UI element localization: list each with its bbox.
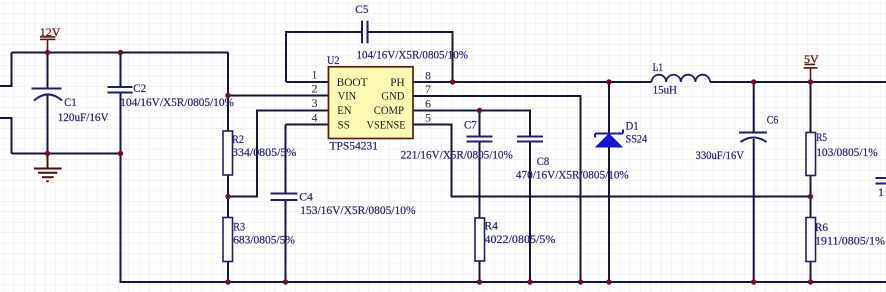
capacitor C8: [517, 137, 543, 142]
resistor R3: [223, 218, 233, 262]
svg-text:BOOT: BOOT: [337, 77, 368, 89]
wire: D1 cathode lead: [608, 82, 610, 134]
resistor R5: [806, 133, 816, 176]
wire: VIN drop: [227, 53, 229, 96]
inductor L1: [652, 75, 710, 82]
wire: R6 bottom lead: [810, 262, 812, 283]
wire: C7 to R4: [479, 142, 481, 219]
svg-text:5V: 5V: [804, 52, 819, 66]
svg-text:104/16V/X5R/0805/10%: 104/16V/X5R/0805/10%: [357, 47, 469, 61]
wire: C6 top lead: [753, 82, 755, 133]
wire: C4 top lead: [285, 125, 287, 194]
svg-text:L1: L1: [653, 60, 664, 74]
svg-text:221/16V/X5R/0805/10%: 221/16V/X5R/0805/10%: [401, 147, 513, 161]
node COMP/C7: [477, 108, 482, 113]
wire: C4 bottom lead: [285, 200, 287, 282]
wire: R3 bottom lead: [227, 262, 229, 283]
diode D1 SS24 schottky: [595, 130, 623, 148]
capacitor C5: [362, 21, 368, 44]
svg-text:C4: C4: [299, 189, 313, 203]
capacitor C7: [467, 137, 493, 142]
svg-text:4: 4: [312, 111, 318, 125]
node rail/C8: [527, 279, 532, 284]
svg-text:1: 1: [878, 185, 884, 199]
svg-text:470/16V/X5R/0805/10%: 470/16V/X5R/0805/10%: [516, 168, 629, 182]
power port 12V: [40, 37, 56, 53]
svg-text:C5: C5: [355, 2, 368, 16]
wire: R2 top lead: [227, 96, 229, 132]
svg-text:U2: U2: [327, 53, 340, 67]
wire: bottom left gnd wire: [12, 153, 121, 155]
node rail/C4: [283, 279, 288, 284]
wire: GND pin 7 to rail: [413, 96, 581, 282]
svg-text:VSENSE: VSENSE: [367, 119, 406, 131]
svg-text:6: 6: [425, 97, 431, 111]
svg-text:330uF/16V: 330uF/16V: [696, 148, 745, 162]
svg-text:5: 5: [425, 111, 431, 125]
node PH/C5: [450, 79, 455, 84]
wire: BOOT pin 1: [286, 81, 329, 83]
node rail/R3: [225, 279, 230, 284]
node gnd/C1: [45, 151, 50, 156]
svg-text:12V: 12V: [40, 25, 61, 39]
wire: VIN feed to pin 2: [228, 95, 329, 97]
wire: left loop upper stub: [0, 53, 12, 87]
node 5V/C6: [751, 79, 756, 84]
wire: EN junction to pin 3: [228, 111, 329, 197]
node 12V/C2: [118, 50, 123, 55]
wire: C2 top lead: [120, 53, 122, 88]
svg-text:R3: R3: [233, 219, 245, 233]
wire: C2 bottom lead and ground rail: [121, 93, 886, 283]
wire: R4 bottom lead: [479, 261, 481, 282]
node rail/R6: [808, 279, 813, 284]
wire: top rail from 12V: [12, 52, 229, 54]
svg-text:120uF/16V: 120uF/16V: [58, 110, 109, 124]
capacitor fragment at right edge: [876, 178, 886, 184]
node rail/C6: [751, 279, 756, 284]
resistor R4: [475, 218, 485, 261]
wire: R3 top lead: [227, 197, 229, 218]
node PH/D1: [606, 79, 611, 84]
power port 5V: [804, 64, 818, 82]
svg-text:8: 8: [425, 69, 431, 83]
node 12V/C1: [45, 50, 50, 55]
svg-text:C7: C7: [464, 117, 477, 131]
wire: C8 bottom lead: [529, 142, 531, 283]
svg-text:C8: C8: [537, 154, 550, 168]
svg-text:COMP: COMP: [374, 105, 404, 117]
svg-text:3: 3: [312, 96, 318, 110]
wire: C5 left leg: [286, 32, 362, 82]
svg-text:103/0805/1%: 103/0805/1%: [816, 145, 878, 159]
svg-text:4022/0805/5%: 4022/0805/5%: [485, 232, 556, 246]
svg-text:15uH: 15uH: [653, 83, 678, 97]
svg-text:TPS54231: TPS54231: [330, 139, 379, 153]
op-amp/regulator U2 TPS54231 body: [329, 67, 414, 139]
svg-text:SS: SS: [338, 119, 351, 131]
svg-text:PH: PH: [390, 77, 404, 89]
svg-text:SS24: SS24: [626, 132, 648, 146]
wire: L1 to 5V rail: [710, 81, 886, 83]
wire: R2 bottom lead: [227, 175, 229, 197]
node VIN/R2: [225, 93, 230, 98]
svg-text:683/0805/5%: 683/0805/5%: [233, 233, 295, 247]
svg-text:1: 1: [312, 68, 318, 82]
wire: SS pin 4 to C4: [286, 124, 329, 126]
wire: PH output to L1: [413, 81, 652, 83]
svg-text:GND: GND: [381, 90, 404, 102]
wire: C6 bottom lead: [753, 139, 755, 282]
svg-text:R5: R5: [816, 130, 827, 144]
wire: C1 top lead: [47, 53, 49, 89]
wire: COMP pin 6 to C8: [413, 111, 530, 137]
svg-text:EN: EN: [337, 105, 352, 117]
wire: C7 top lead: [479, 111, 481, 137]
node EN divider: [225, 194, 230, 199]
svg-text:C1: C1: [64, 95, 76, 109]
wire: C5 right leg: [368, 32, 453, 82]
wire: R6 top lead: [810, 197, 812, 218]
svg-text:R6: R6: [815, 220, 828, 234]
wire: R5 bottom lead: [810, 176, 812, 197]
svg-text:153/16V/X5R/0805/10%: 153/16V/X5R/0805/10%: [300, 203, 415, 217]
node feedback R5/R6: [808, 194, 813, 199]
svg-text:C6: C6: [767, 112, 779, 126]
wire: left loop lower stub: [0, 118, 12, 154]
svg-text:2: 2: [312, 82, 318, 96]
node rail/GND pin: [578, 279, 583, 284]
node rail/R4: [477, 279, 482, 284]
resistor R2: [223, 131, 233, 175]
node gnd/C2: [118, 151, 123, 156]
svg-text:334/0805/5%: 334/0805/5%: [232, 145, 296, 159]
svg-text:D1: D1: [626, 119, 639, 133]
resistor R6: [806, 218, 816, 262]
capacitor C6: [739, 133, 767, 143]
capacitor C1: [32, 89, 63, 101]
svg-text:VIN: VIN: [338, 90, 357, 102]
capacitor C4: [271, 194, 298, 201]
ground GND: [34, 154, 62, 182]
node rail/D1: [606, 279, 611, 284]
svg-text:7: 7: [425, 82, 431, 96]
wire: D1 anode lead: [608, 147, 610, 283]
capacitor C2: [108, 87, 133, 93]
svg-text:R4: R4: [485, 219, 498, 233]
svg-text:1911/0805/1%: 1911/0805/1%: [815, 233, 885, 247]
svg-text:R2: R2: [232, 132, 244, 146]
svg-text:C2: C2: [133, 81, 146, 95]
wire: VSENSE feedback: [413, 125, 811, 197]
wire: R5 top lead: [810, 82, 812, 133]
svg-text:104/16V/X5R/0805/10%: 104/16V/X5R/0805/10%: [120, 95, 234, 109]
wire: C1 bottom lead: [47, 95, 49, 154]
node 5V/R5: [808, 79, 813, 84]
